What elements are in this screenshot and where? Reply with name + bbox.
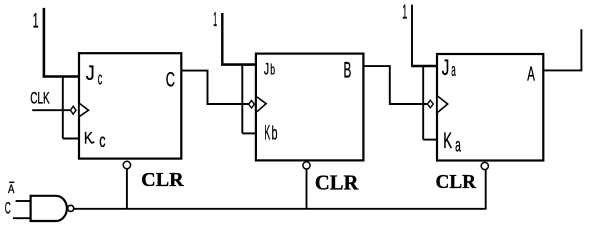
svg-text:J: J bbox=[264, 59, 269, 78]
svg-text:K: K bbox=[443, 128, 452, 153]
svg-text:CLR: CLR bbox=[141, 169, 184, 191]
svg-text:CLR: CLR bbox=[436, 171, 477, 193]
svg-text:J: J bbox=[442, 55, 450, 80]
svg-text:J: J bbox=[86, 62, 95, 85]
svg-text:a: a bbox=[451, 60, 456, 80]
svg-text:1: 1 bbox=[33, 9, 39, 32]
svg-text:c: c bbox=[99, 131, 105, 152]
svg-text:A: A bbox=[8, 182, 14, 196]
svg-text:C: C bbox=[5, 199, 11, 217]
svg-text:K: K bbox=[264, 122, 270, 145]
svg-text:C: C bbox=[166, 67, 175, 91]
svg-text:K: K bbox=[84, 128, 94, 147]
svg-text:c: c bbox=[98, 68, 103, 88]
svg-text:CLR: CLR bbox=[315, 171, 359, 195]
svg-text:A: A bbox=[527, 63, 535, 85]
svg-text:a: a bbox=[455, 136, 461, 157]
svg-text:b: b bbox=[272, 124, 278, 145]
svg-text:1: 1 bbox=[402, 0, 407, 23]
svg-text:B: B bbox=[344, 57, 352, 82]
svg-text:b: b bbox=[270, 61, 275, 78]
svg-text:1: 1 bbox=[213, 8, 217, 31]
svg-text:CLK: CLK bbox=[30, 88, 50, 107]
